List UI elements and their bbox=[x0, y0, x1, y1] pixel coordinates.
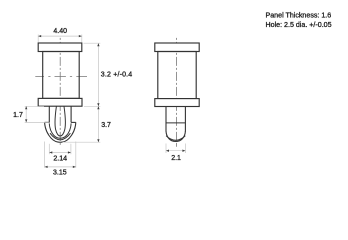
dimension 3.2: dimension line bbox=[97, 43, 99, 106]
front view: barb catch flat left bbox=[45, 121, 50, 123]
dimension 2.14: right extension line bbox=[70, 144, 72, 154]
dimension 2.1: right arrow bbox=[182, 150, 185, 152]
front view: split stem right line bbox=[60, 106, 65, 136]
dimension 2.1: left arrow bbox=[166, 150, 169, 152]
front view: body bbox=[43, 52, 79, 99]
svg-text:Hole: 2.5 dia. +/-0.05: Hole: 2.5 dia. +/-0.05 bbox=[266, 21, 332, 29]
dimension 2.1: left extension line bbox=[165, 144, 167, 154]
front view: barb inner arch bbox=[49, 123, 71, 138]
front view: barb catch flat right bbox=[71, 121, 76, 123]
dimension 3.7: bottom extension line bbox=[63, 141, 101, 143]
front view: split stem left line bbox=[55, 106, 60, 136]
dimension 2.1: dimension line bbox=[166, 150, 185, 152]
front view: neck right edge bbox=[70, 106, 72, 122]
side view: body bbox=[158, 52, 196, 99]
dimension 2.14: left arrow bbox=[49, 151, 52, 153]
dimension 4.40: left arrow bbox=[38, 35, 41, 37]
side view: stem right edge bbox=[184, 107, 186, 132]
dimension 3.7: bottom arrow bbox=[97, 139, 99, 142]
svg-text:3.2 +/-0.4: 3.2 +/-0.4 bbox=[101, 72, 133, 79]
svg-text:4.40: 4.40 bbox=[53, 28, 67, 35]
side view: stem dome bottom bbox=[166, 131, 185, 142]
front view: cap bbox=[38, 43, 82, 52]
dimension 4.40: dimension line bbox=[38, 35, 82, 37]
dimension 1.7: top arrow bbox=[25, 106, 27, 109]
front view: flange bbox=[38, 98, 82, 106]
side view: flange bbox=[155, 99, 199, 107]
dimension 4.40: right extension line bbox=[81, 35, 83, 43]
dimension 2.14: left extension line bbox=[48, 144, 50, 154]
dimension 3.15: right arrow bbox=[73, 166, 76, 168]
dimension 3.15: right extension line bbox=[75, 142, 77, 168]
svg-text:1.7: 1.7 bbox=[13, 112, 23, 119]
svg-text:3.7: 3.7 bbox=[101, 122, 111, 129]
dimension 1.7: bottom extension line bbox=[25, 121, 49, 123]
dimension 2.14: right arrow bbox=[68, 151, 71, 153]
front view: neck left edge bbox=[48, 106, 50, 122]
side view: stem left edge bbox=[165, 107, 167, 132]
svg-text:2.1: 2.1 bbox=[171, 155, 181, 162]
dimension 3.7: top arrow bbox=[97, 106, 99, 109]
svg-text:2.14: 2.14 bbox=[53, 155, 67, 162]
side view: vertical centerline bbox=[175, 38, 177, 147]
svg-text:Panel Thickness: 1.6: Panel Thickness: 1.6 bbox=[266, 11, 332, 19]
dimension 3.15: left arrow bbox=[45, 166, 48, 168]
dimension 3.2: top extension line bbox=[84, 42, 101, 44]
dimension 3.7: dimension line bbox=[97, 106, 99, 142]
front view: horizontal centerline bbox=[35, 75, 87, 77]
dimension 4.40: right arrow bbox=[79, 35, 82, 37]
dimension 1.7: bottom arrow bbox=[25, 119, 27, 122]
dimension 1.7: top extension line bbox=[25, 105, 44, 107]
front view: vertical centerline bbox=[59, 38, 61, 145]
dimension 2.1: right extension line bbox=[184, 144, 186, 154]
dimension 3.15: dimension line bbox=[45, 166, 76, 168]
side view: barb catch line bbox=[166, 122, 185, 124]
dimension 3.2: top arrow bbox=[97, 43, 99, 46]
dimension 2.14: dimension line bbox=[49, 152, 71, 154]
side view: tip cup arc bbox=[166, 136, 185, 141]
front view: barb outer arch bbox=[45, 122, 76, 142]
dimension 1.7: dimension line bbox=[25, 106, 27, 122]
dimension 3.2: bottom arrow bbox=[97, 103, 99, 106]
dimension 4.40: left extension line bbox=[37, 35, 39, 43]
dimension 3.15: left extension line bbox=[44, 142, 46, 168]
side view: cap bbox=[155, 43, 199, 52]
dimension 3.7: top extension line bbox=[84, 105, 100, 107]
front view: barb cup arc bbox=[50, 133, 70, 140]
svg-text:3.15: 3.15 bbox=[53, 169, 67, 176]
